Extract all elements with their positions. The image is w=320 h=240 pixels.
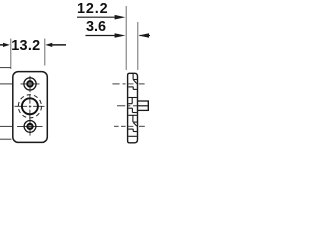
side view top hole section lines [128,74,137,90]
top hole centerline vertical [29,76,31,92]
side view pin tab mid line [138,105,149,107]
large hole circle [22,98,38,114]
top hole outer circle [24,78,36,90]
top hole centerline horizontal [21,83,40,85]
side view centerline of top hole [112,83,144,85]
leader line stub lower left [0,138,11,140]
side view pin tab bottom edge [138,109,149,111]
side view centerline of centre hole [117,105,137,107]
bottom hole centerline vertical [29,118,31,136]
extension line left of front view (13.2) [10,39,12,70]
bottom hole centerline horizontal [17,125,43,127]
dimension 13.2 left arrow [0,43,10,47]
dimension 3.6 opposing left arrow at right edge [139,33,150,38]
svg-text:13.2: 13.2 [11,38,40,54]
dimension 12.2 shelf line with right arrow [77,15,125,20]
side view bottom hole section lines [128,115,137,136]
extension line right of front view (13.2) [44,39,46,66]
leader line stub at top hole centerline [0,83,13,85]
side view centerline of bottom hole [114,125,145,127]
bottom hole outer circle [24,121,36,133]
bottom hole inner ring [27,124,32,129]
dimension 13.2 right arrow [45,43,66,47]
side view outline [128,73,138,143]
side view pin tab top edge [138,100,149,102]
top hole inner ring [27,81,32,86]
extension line right face of side view [137,22,139,70]
svg-text:3.6: 3.6 [86,19,106,35]
svg-text:12.2: 12.2 [77,1,108,17]
side view centre hole section lines [128,98,137,116]
side view pin tab end cap [147,100,149,111]
large hole centerline vertical [29,94,31,118]
large hole centerline horizontal [15,105,45,107]
dimension 3.6 shelf line with right arrow [86,33,126,38]
large hole dashed circle [18,95,41,118]
leader line stub at bottom hole centerline [0,125,13,127]
front view plate outline [13,72,48,143]
leader line stub upper left [0,67,11,69]
extension line left face of side view [125,6,127,70]
